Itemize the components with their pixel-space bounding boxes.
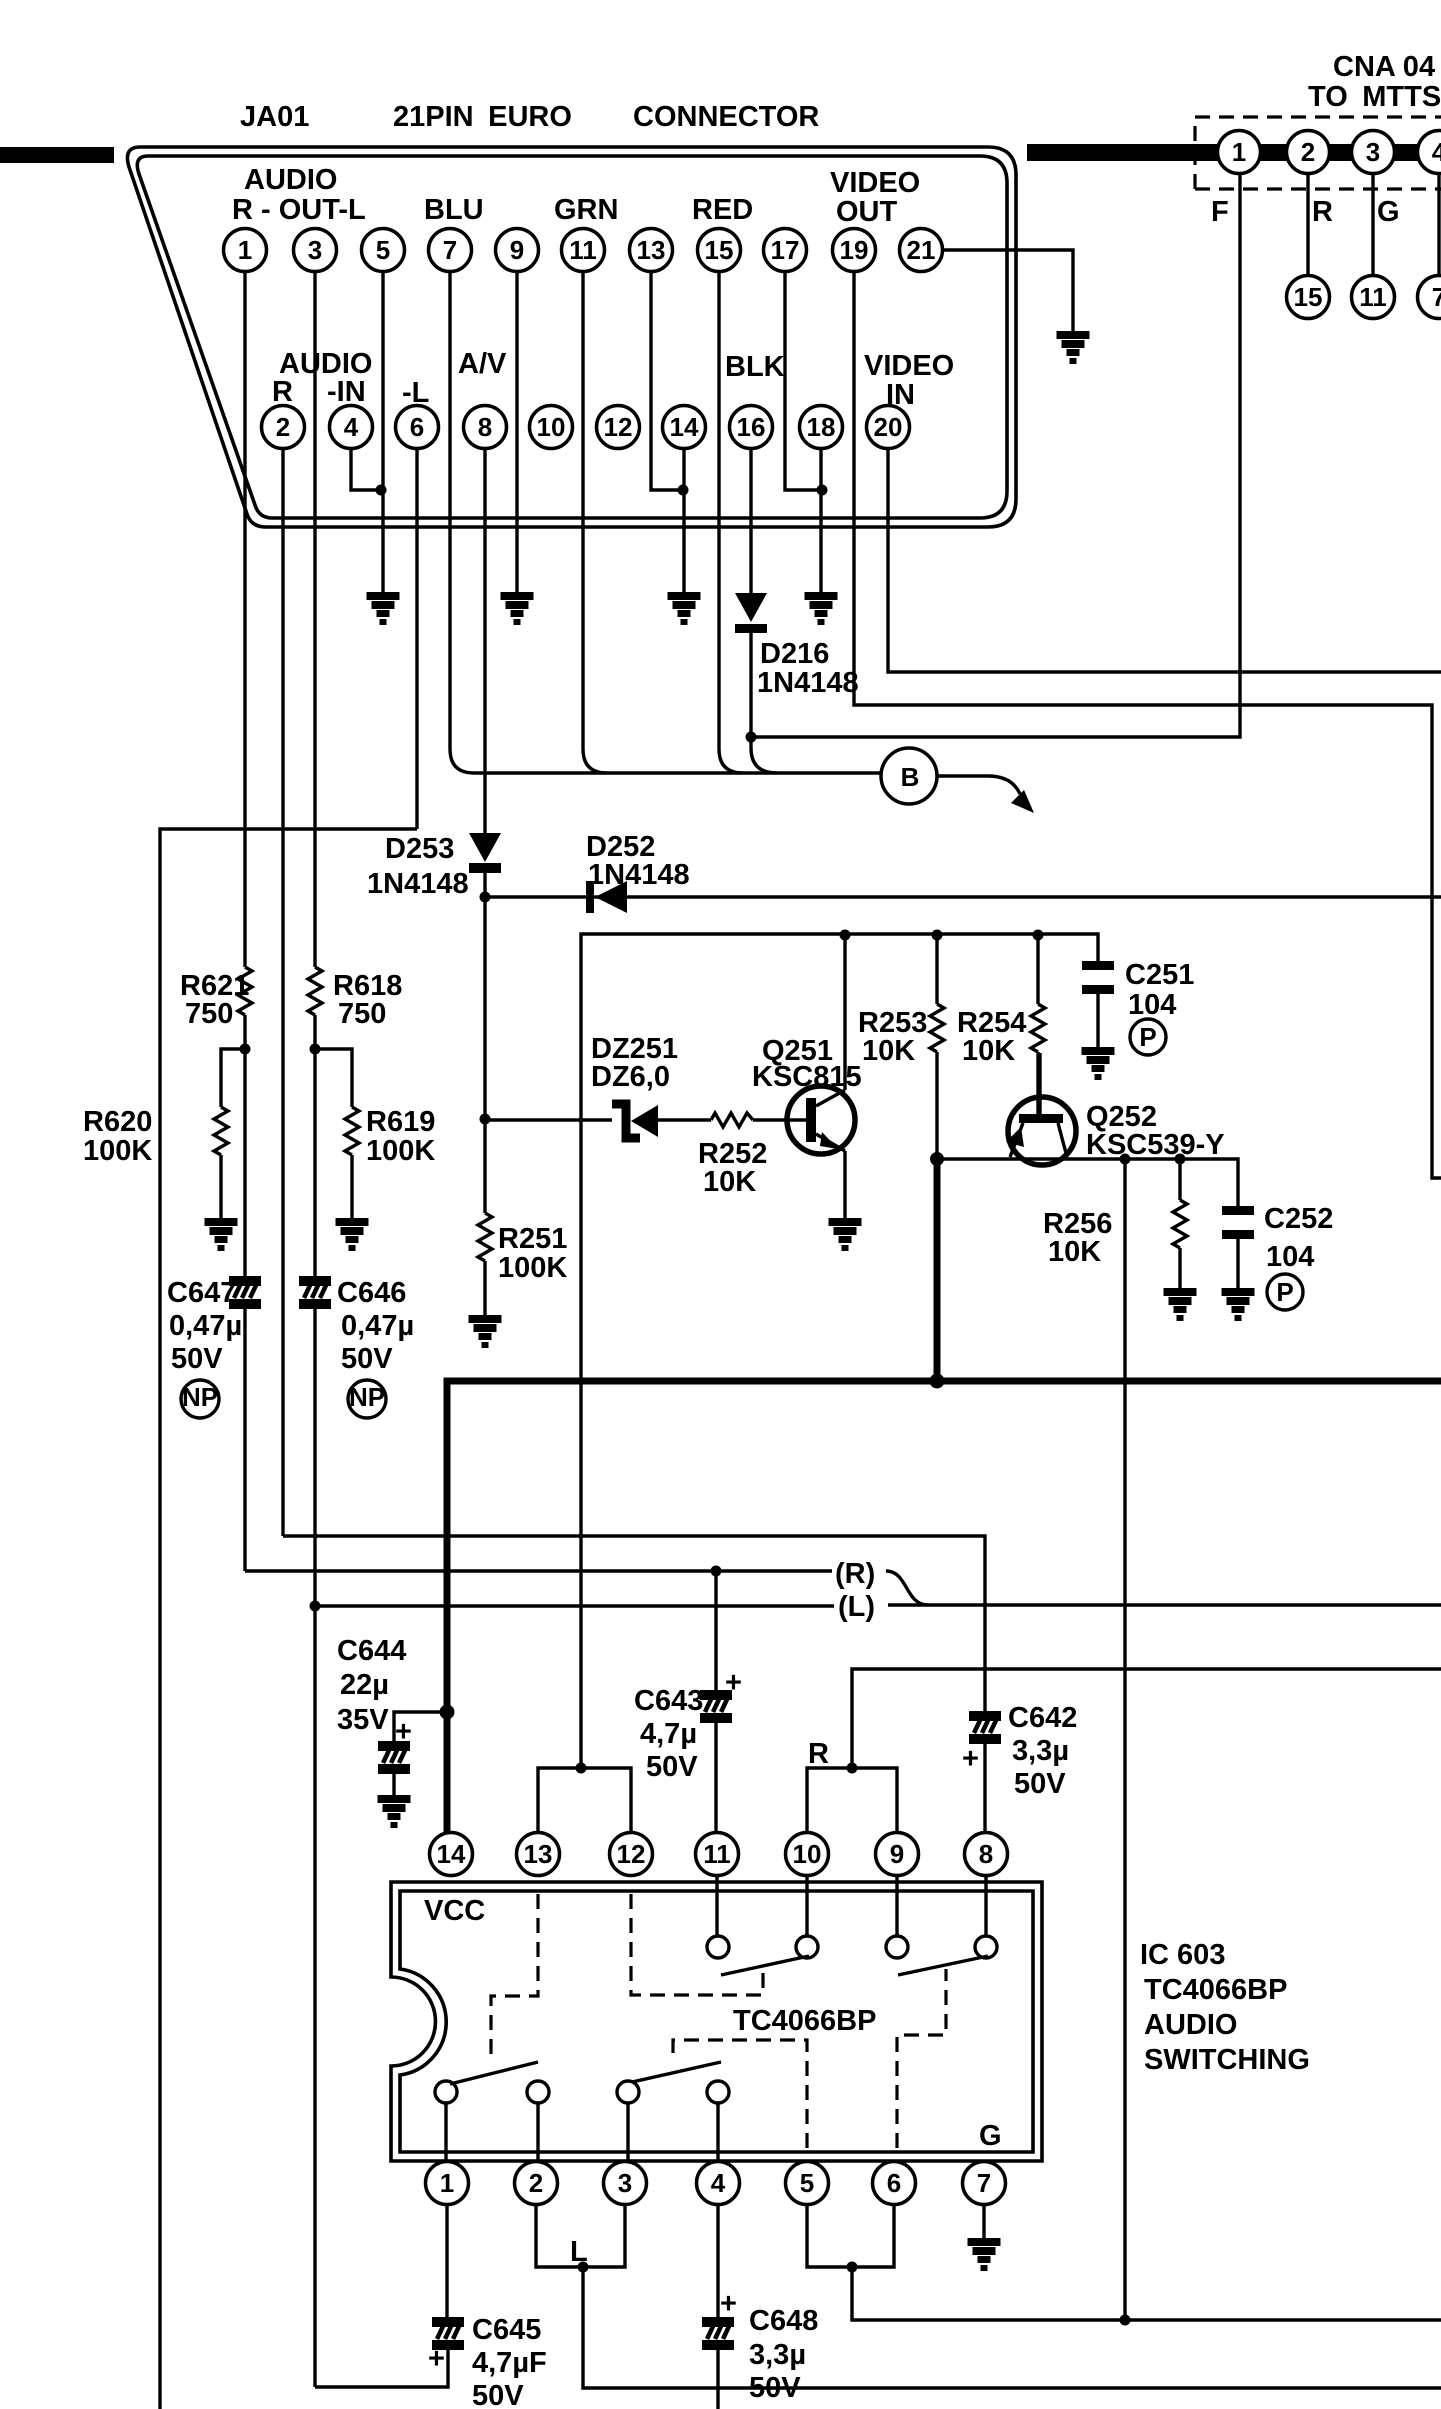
pin 4 IC603 <box>697 2162 740 2205</box>
svg-text:TC4066BP: TC4066BP <box>1144 1974 1287 2006</box>
pin 7 JA01 <box>429 229 472 272</box>
svg-text:+: + <box>720 2288 737 2320</box>
ground pin18 <box>805 592 838 625</box>
svg-text:9: 9 <box>890 1839 904 1869</box>
svg-text:3: 3 <box>308 235 322 265</box>
junction L line / pin3 <box>310 1601 321 1612</box>
pin 17 JA01 <box>764 229 807 272</box>
svg-text:1N4148: 1N4148 <box>367 868 469 900</box>
svg-text:12: 12 <box>617 1839 646 1869</box>
wire node B exit arrow <box>937 776 1020 794</box>
junction pin17/pin18 <box>817 485 828 496</box>
junction R253 / base line (bold) <box>930 1152 944 1166</box>
svg-text:50V: 50V <box>341 1343 393 1375</box>
junction pin13/pin14 <box>678 485 689 496</box>
wire SW1 contact1 to pin1 <box>444 2103 447 2161</box>
junction pin8 line / zener wire <box>480 1114 491 1125</box>
svg-text:13: 13 <box>524 1839 553 1869</box>
svg-text:R: R <box>1312 196 1333 228</box>
svg-text:C645: C645 <box>472 2314 541 2346</box>
svg-text:35V: 35V <box>337 1704 389 1736</box>
wire pin20 video in right <box>888 437 1441 672</box>
ground R256 <box>1164 1288 1197 1321</box>
svg-text:7: 7 <box>443 235 457 265</box>
svg-text:50V: 50V <box>472 2380 524 2409</box>
junction D253 / D252 wire <box>480 892 491 903</box>
svg-text:5: 5 <box>800 2168 814 2198</box>
wire pin3 audio L out down <box>313 260 316 967</box>
junction bold rail / C644 <box>440 1705 455 1720</box>
ground C644 <box>378 1795 411 1828</box>
svg-text:14: 14 <box>437 1839 466 1869</box>
svg-text:15: 15 <box>1294 282 1323 312</box>
capacitor C644 22u 35V <box>378 1741 410 1774</box>
transistor Q251 KSC815 <box>787 1086 855 1154</box>
svg-text:10: 10 <box>537 412 566 442</box>
wire pin5 to ground <box>381 260 384 592</box>
IC U603 outline inner <box>400 1891 1033 2152</box>
svg-text:R620: R620 <box>83 1106 152 1138</box>
ground IC pin7 <box>968 2238 1001 2271</box>
junction tie 13-12 / control rail <box>576 1763 587 1774</box>
svg-text:NP: NP <box>349 1382 385 1412</box>
svg-text:4: 4 <box>344 412 359 442</box>
pin 10 IC603 <box>786 1833 829 1876</box>
svg-text:1: 1 <box>1232 137 1246 167</box>
svg-text:3: 3 <box>618 2168 632 2198</box>
svg-text:D253: D253 <box>385 833 454 865</box>
pin 8 IC603 <box>965 1833 1008 1876</box>
switch SW3 contact pin8 <box>975 1936 997 1958</box>
ground pin9 <box>501 592 534 625</box>
wire pin1 audio R out down <box>243 260 246 967</box>
svg-text:+: + <box>962 1743 979 1775</box>
svg-text:R251: R251 <box>498 1223 567 1255</box>
wire pin7 down to bundle curve <box>450 260 474 773</box>
svg-text:1N4148: 1N4148 <box>588 859 690 891</box>
svg-text:11: 11 <box>569 235 597 265</box>
pin 8 JA01 <box>464 406 507 449</box>
svg-text:10K: 10K <box>962 1035 1015 1067</box>
pin 13 JA01 <box>630 229 673 272</box>
svg-text:G: G <box>1377 196 1400 228</box>
wire Q252 base-collector line <box>937 1159 1238 1206</box>
svg-text:BLU: BLU <box>424 194 484 226</box>
pin 3 JA01 <box>294 229 337 272</box>
ground C252 <box>1222 1288 1255 1321</box>
wire D253 cathode down <box>483 873 486 1119</box>
wire switch control to right edge <box>852 2267 1441 2320</box>
svg-text:1: 1 <box>238 235 252 265</box>
svg-text:0,47µ: 0,47µ <box>169 1310 242 1342</box>
svg-text:20: 20 <box>874 412 903 442</box>
label P (C251) <box>1130 1019 1166 1055</box>
label NP (C647) <box>181 1380 219 1418</box>
wire R return line from right edge <box>852 1669 1441 1768</box>
pin 6 JA01 <box>396 406 439 449</box>
pin 12 IC603 <box>610 1833 653 1876</box>
svg-text:8: 8 <box>478 412 492 442</box>
pin 5 IC603 <box>786 2162 829 2205</box>
svg-text:2: 2 <box>529 2168 543 2198</box>
svg-text:P: P <box>1139 1022 1156 1052</box>
pin 21 JA01 <box>900 229 943 272</box>
svg-text:+: + <box>725 1667 742 1699</box>
switch SW2 contact pin4 <box>707 2081 729 2103</box>
capacitor C252 104 <box>1222 1206 1254 1239</box>
svg-text:104: 104 <box>1266 1241 1314 1273</box>
junction R621 / R620 <box>240 1044 251 1055</box>
pin 9 JA01 <box>496 229 539 272</box>
pin 6 IC603 <box>873 2162 916 2205</box>
wire pin8 A/V down <box>483 437 486 833</box>
svg-text:-IN: -IN <box>327 376 366 408</box>
svg-text:RED: RED <box>692 194 753 226</box>
svg-text:0,47µ: 0,47µ <box>341 1310 414 1342</box>
pin 19 JA01 <box>833 229 876 272</box>
svg-text:50V: 50V <box>749 2372 801 2404</box>
svg-text:10K: 10K <box>1048 1236 1101 1268</box>
svg-text:AUDIO: AUDIO <box>244 164 337 196</box>
svg-text:R: R <box>808 1738 829 1770</box>
wire D216 cathode to node <box>749 633 752 737</box>
junction control line / Q252 net <box>1120 2315 1131 2326</box>
switch SW4 contact pin10 <box>796 1936 818 1958</box>
diode D216 1N4148 <box>735 593 767 622</box>
svg-text:6: 6 <box>887 2168 901 2198</box>
svg-text:SWITCHING: SWITCHING <box>1144 2044 1310 2076</box>
wire R620 branch <box>221 1049 245 1107</box>
bold wire switching rail <box>447 1381 1441 1832</box>
ground R620 <box>205 1218 238 1251</box>
svg-text:CONNECTOR: CONNECTOR <box>633 101 819 133</box>
junction Q252 line / audio ctrl vertical <box>1120 1154 1131 1165</box>
junction R line / C643 <box>711 1566 722 1577</box>
wire R/L pair to right edge <box>888 1603 1441 1606</box>
svg-text:100K: 100K <box>83 1135 152 1167</box>
svg-text:+: + <box>395 1716 412 1748</box>
switch SW1 contact pin1 <box>435 2081 457 2103</box>
junction D216 / CNA04-F node <box>746 732 757 743</box>
svg-text:4: 4 <box>711 2168 726 2198</box>
wire CNA04 pin3 to pin11 <box>1371 170 1374 275</box>
wire pin15 down to bundle curve <box>719 260 743 773</box>
pin 2 JA01 <box>262 406 305 449</box>
pin 15 JA01 <box>698 229 741 272</box>
pin 11 JA01 <box>562 229 605 272</box>
svg-text:C251: C251 <box>1125 959 1194 991</box>
capacitor C642 3,3u 50V <box>969 1711 1001 1744</box>
svg-text:7: 7 <box>977 2168 991 2198</box>
wire SW2 contact4 to pin4 <box>716 2103 719 2161</box>
bold wire R253 node down to switching rail <box>934 1159 941 1381</box>
svg-text:50V: 50V <box>171 1343 223 1375</box>
svg-text:C642: C642 <box>1008 1702 1077 1734</box>
svg-text:+: + <box>428 2343 445 2375</box>
svg-text:P: P <box>1276 1277 1293 1307</box>
junction R618 / R619 <box>310 1044 321 1055</box>
svg-text:18: 18 <box>807 412 836 442</box>
connector CNA04 dashed outline <box>1195 117 1441 189</box>
control dash pin12 to SW4 <box>631 1894 763 1995</box>
power bus bar top-left <box>0 147 114 163</box>
wire pins5-6 tie <box>807 2205 894 2267</box>
pin 13 IC603 <box>517 1833 560 1876</box>
switch SW2 lever <box>632 2062 721 2082</box>
resistor R618 750 <box>308 967 322 1015</box>
label P (C252) <box>1267 1274 1303 1310</box>
svg-text:R - OUT-L: R - OUT-L <box>232 194 366 226</box>
capacitor C645 4,7uF 50V <box>445 2205 448 2317</box>
svg-text:D216: D216 <box>760 638 829 670</box>
wire pin14 to ground <box>682 437 685 592</box>
capacitor C643 4,7u 50V <box>714 1571 717 1690</box>
svg-text:C648: C648 <box>749 2305 818 2337</box>
wire pin13 elbow to pin14 <box>651 260 683 490</box>
wire pin3 line down to C645 <box>313 1606 316 2387</box>
ground R619 <box>336 1218 369 1251</box>
svg-text:21PIN EURO: 21PIN EURO <box>393 101 572 133</box>
wire pin11 to switch contact <box>715 1876 718 1936</box>
svg-text:11: 11 <box>1359 282 1387 312</box>
wire SW2 contact3 to pin3 <box>626 2103 629 2161</box>
svg-text:GRN: GRN <box>554 194 618 226</box>
wire D252 line to right edge <box>485 895 1441 898</box>
wire pin9 to switch contact <box>895 1876 898 1936</box>
wire Q251 emitter to ground <box>843 1151 846 1218</box>
ground pin14 <box>668 592 701 625</box>
junction bold rail / R253 branch <box>930 1374 945 1389</box>
pin 1 CNA04 <box>1218 131 1261 174</box>
switch SW1 lever <box>450 2062 538 2084</box>
pin 9 IC603 <box>876 1833 919 1876</box>
svg-text:4: 4 <box>1432 137 1441 167</box>
svg-text:10K: 10K <box>703 1166 756 1198</box>
svg-text:2: 2 <box>276 412 290 442</box>
resistor R620 100K <box>214 1107 228 1155</box>
svg-text:OUT: OUT <box>836 196 898 228</box>
svg-text:G: G <box>979 2120 1002 2152</box>
ground Q251 emitter <box>829 1218 862 1251</box>
svg-text:5: 5 <box>376 235 390 265</box>
svg-text:16: 16 <box>737 412 766 442</box>
wire pins10-9 tie <box>807 1768 897 1832</box>
resistor R252 10K <box>711 1113 753 1127</box>
svg-text:JA01: JA01 <box>240 101 309 133</box>
wire pin6 to left rail down page <box>160 829 417 2409</box>
svg-text:A/V: A/V <box>458 348 507 380</box>
svg-text:6: 6 <box>410 412 424 442</box>
resistor R619 100K <box>345 1107 359 1155</box>
svg-text:KSC539-Y: KSC539-Y <box>1086 1129 1225 1161</box>
node B <box>881 748 937 804</box>
svg-text:AUDIO: AUDIO <box>1144 2009 1237 2041</box>
control dash pin5 to SW2 <box>673 2040 807 2148</box>
capacitor C648 3,3u 50V <box>716 2205 719 2317</box>
svg-text:750: 750 <box>185 998 233 1030</box>
pin 2 IC603 <box>515 2162 558 2205</box>
wire pin4 elbow to pin5 <box>351 437 381 490</box>
pin 3 IC603 <box>604 2162 647 2205</box>
resistor R256 10K <box>1178 1159 1181 1200</box>
control dash pin13 to SW1 <box>491 1894 538 2058</box>
wire control net top rail <box>581 934 1098 1768</box>
svg-text:IC 603: IC 603 <box>1140 1939 1225 1971</box>
switch SW2 contact pin3 <box>617 2081 639 2103</box>
resistor R251 100K <box>483 1119 486 1213</box>
svg-text:10K: 10K <box>862 1035 915 1067</box>
pin 4 JA01 <box>330 406 373 449</box>
svg-text:11: 11 <box>703 1839 731 1869</box>
svg-text:CNA 04: CNA 04 <box>1333 51 1435 83</box>
svg-text:8: 8 <box>979 1839 993 1869</box>
svg-text:L: L <box>570 2236 588 2268</box>
svg-text:15: 15 <box>705 235 734 265</box>
capacitor C251 104 <box>1082 961 1114 994</box>
junction rail / R254 <box>1033 930 1044 941</box>
pin 4 CNA04 <box>1418 131 1441 174</box>
wire pin16 curve into bundle <box>751 737 777 773</box>
pin 1 IC603 <box>426 2162 469 2205</box>
svg-text:C252: C252 <box>1264 1203 1333 1235</box>
pin 14 JA01 <box>663 406 706 449</box>
ground R251 <box>469 1315 502 1348</box>
svg-text:C647: C647 <box>167 1277 236 1309</box>
pin 20 JA01 <box>867 406 910 449</box>
svg-text:9: 9 <box>510 235 524 265</box>
junction rail / Q251 collector <box>840 930 851 941</box>
ground C251 <box>1082 1047 1115 1080</box>
junction L tie <box>578 2262 589 2273</box>
connector JA01 21-pin euro outline outer <box>127 147 1016 527</box>
wire pin16 down to D216 <box>749 437 752 595</box>
wire pin2 audio R in down <box>281 437 284 1536</box>
wire C644 branch <box>394 1712 447 1741</box>
svg-text:2: 2 <box>1301 137 1315 167</box>
svg-text:12: 12 <box>604 412 633 442</box>
resistor R254 10K <box>1036 935 1039 1004</box>
wire C252 to ground <box>1236 1239 1239 1288</box>
junction pin4/pin5 <box>376 485 387 496</box>
junction 5-6 tie <box>847 2262 858 2273</box>
ground pin5 <box>367 592 400 625</box>
pin 12 JA01 <box>597 406 640 449</box>
svg-text:17: 17 <box>771 235 800 265</box>
wire zener branch <box>485 1118 806 1121</box>
wire C251 to ground <box>1096 994 1099 1047</box>
wire CNA04 pin2 to pin15 <box>1306 170 1309 275</box>
switch SW3 contact pin9 <box>886 1936 908 1958</box>
svg-text:10: 10 <box>793 1839 822 1869</box>
pin 7 IC603 <box>963 2162 1006 2205</box>
svg-text:C644: C644 <box>337 1635 406 1667</box>
svg-text:VIDEO: VIDEO <box>864 350 954 382</box>
svg-text:21: 21 <box>907 235 936 265</box>
svg-text:R619: R619 <box>366 1106 435 1138</box>
wire L out to right edge <box>583 2267 1441 2388</box>
svg-text:100K: 100K <box>498 1252 567 1284</box>
wire CNA04 pin4 stub <box>1437 170 1440 275</box>
svg-text:C643: C643 <box>634 1685 703 1717</box>
connector JA01 outline inner <box>137 156 1007 518</box>
resistor R621 750 <box>238 967 252 1015</box>
svg-text:(L): (L) <box>838 1591 875 1623</box>
svg-text:4,7µ: 4,7µ <box>640 1718 697 1750</box>
svg-text:R: R <box>272 376 293 408</box>
pin 10 JA01 <box>530 406 573 449</box>
pin 3 CNA04 <box>1352 131 1395 174</box>
wire pin9 to ground <box>515 260 518 592</box>
diode D252 1N4148 <box>586 881 594 913</box>
resistor R253 10K <box>935 935 938 1004</box>
svg-text:VCC: VCC <box>424 1895 485 1927</box>
pin 18 JA01 <box>800 406 843 449</box>
wire pin7 to ground <box>982 2205 985 2238</box>
capacitor C647 0,47u NP <box>243 1049 246 1276</box>
wire (R) merge curve <box>886 1571 928 1605</box>
wire RGB bundle to node B <box>474 771 881 774</box>
pin 5 JA01 <box>362 229 405 272</box>
wire Q251 collector up <box>843 935 846 1090</box>
pin 7 CNA04 lower <box>1418 276 1441 319</box>
wire pin17 elbow to pin18 <box>785 260 822 490</box>
svg-text:BLK: BLK <box>725 351 785 383</box>
wire pins2-3 tie <box>536 2205 625 2267</box>
wire audio control vertical <box>1123 1159 1126 2320</box>
diode D253 1N4148 <box>469 833 501 862</box>
svg-text:1: 1 <box>440 2168 454 2198</box>
wire pins13-12 tie <box>538 1768 631 1832</box>
label NP (C646) <box>348 1380 386 1418</box>
svg-text:VIDEO: VIDEO <box>830 167 920 199</box>
transistor Q252 KSC539-Y <box>1006 1053 1076 1165</box>
wire pin2 audio R in to C642 <box>283 1536 985 1711</box>
svg-text:4,7µF: 4,7µF <box>472 2347 547 2379</box>
svg-text:NP: NP <box>182 1382 218 1412</box>
svg-text:3,3µ: 3,3µ <box>749 2339 806 2371</box>
svg-text:14: 14 <box>670 412 699 442</box>
wire pin6 audio L in down <box>415 437 418 829</box>
IC U603 TC4066BP outline outer <box>391 1882 1042 2161</box>
svg-text:TC4066BP: TC4066BP <box>733 2005 876 2037</box>
svg-text:750: 750 <box>338 998 386 1030</box>
svg-text:100K: 100K <box>366 1135 435 1167</box>
svg-text:1N4148: 1N4148 <box>757 667 859 699</box>
switch SW3 lever <box>898 1956 988 1975</box>
switch SW1 contact pin2 <box>527 2081 549 2103</box>
pin 11 IC603 <box>696 1833 739 1876</box>
control dash pin6 to SW3 <box>897 1969 946 2148</box>
pin 11 CNA04 lower <box>1352 276 1395 319</box>
arrowhead node B <box>1011 790 1034 813</box>
switch SW4 lever <box>721 1956 809 1975</box>
ground pin21 <box>1057 331 1090 364</box>
svg-text:(R): (R) <box>835 1558 875 1590</box>
pin 2 CNA04 <box>1287 131 1330 174</box>
wire pin10 to switch contact <box>805 1876 808 1936</box>
wire audio L-out line <box>315 1604 834 1607</box>
wire pin11 down to bundle curve <box>583 260 607 773</box>
junction rail / R253 <box>932 930 943 941</box>
wire pin18 to ground <box>819 437 822 592</box>
wire audio R-out line <box>245 1569 832 1572</box>
svg-text:13: 13 <box>637 235 666 265</box>
wire SW1 contact2 to pin2 <box>536 2103 539 2161</box>
wire CNA04 pin1 F down-left to D216 node <box>751 170 1240 737</box>
svg-text:3,3µ: 3,3µ <box>1012 1735 1069 1767</box>
switch SW4 contact pin11 <box>707 1936 729 1958</box>
capacitor C646 0,47u NP <box>313 1049 316 1276</box>
